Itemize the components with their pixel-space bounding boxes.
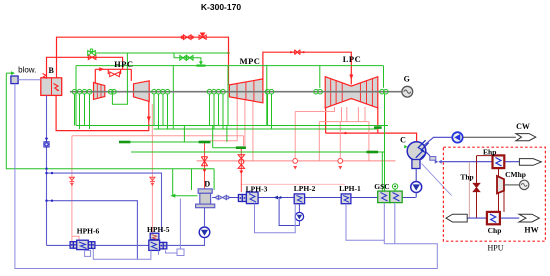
svg-text:LPH-3: LPH-3: [246, 184, 268, 193]
heater LPH-2: [294, 194, 304, 204]
svg-text:HPH-6: HPH-6: [77, 226, 100, 235]
svg-text:HPU: HPU: [487, 244, 503, 253]
wire main green line left side to blow: [6, 73, 214, 196]
heater drains cascade HPH6 to HPH5: [93, 249, 151, 259]
wire CMhp to Chp (maroon): [499, 191, 505, 212]
wire CW discharge: [463, 136, 516, 138]
arrow LPC inlet: [349, 75, 353, 80]
wire seal steam header (green): [76, 66, 384, 129]
wire D base to feed pump: [204, 207, 206, 227]
wire hot reheat (red): [56, 37, 228, 130]
turbine HPC section2: [134, 81, 150, 102]
deaerator D: [198, 189, 212, 193]
heater HPH-6: [70, 240, 95, 249]
generator of CMhp: [520, 180, 529, 189]
CW outfall arrow: [516, 134, 536, 141]
arrow condensate flow left: [274, 196, 279, 200]
feed valve gadget: [45, 138, 49, 141]
valve on condensate at D: [216, 195, 229, 199]
gland seal group1 HPC middle with loop: [109, 53, 128, 104]
wire main condensate line (blue): [212, 197, 416, 199]
wire drain to deaerator: [204, 142, 206, 189]
svg-text:blow.: blow.: [18, 66, 36, 75]
wire feedwater main through HPH (blue): [47, 238, 205, 245]
arrow seal steam to D line: [170, 194, 175, 198]
wire hotwell to condensate pump: [415, 169, 417, 182]
gland seals group4 after MPC: [265, 89, 274, 129]
svg-text:HPC: HPC: [114, 59, 133, 69]
reducer symbol on LPH-3 drain: [238, 155, 244, 169]
svg-text:HW: HW: [524, 226, 538, 235]
wire LPC drains pink: [295, 107, 369, 161]
pump LPH-2 drain: [298, 204, 300, 213]
wire LPH-3 drain to LPH-2: [255, 204, 296, 233]
wire LPH drain subheader (pink): [241, 183, 345, 185]
svg-text:CW: CW: [516, 122, 530, 131]
wire condenser makeup diagonal: [422, 164, 452, 196]
gland seals group2 after HPC: [152, 89, 170, 129]
heat exchanger Chp: [487, 212, 500, 224]
wire feedwater riser to boiler (blue): [46, 95, 48, 245]
node LPC exhaust junction: [344, 132, 346, 134]
wire Ehp to CMhp (maroon): [498, 168, 500, 176]
wire HP spray line (blue): [47, 173, 162, 232]
valve reheat 1: [181, 35, 193, 40]
arrow into blow tank: [11, 71, 15, 75]
HPU dashed boundary: [443, 147, 545, 241]
svg-text:K-300-170: K-300-170: [201, 2, 241, 12]
arrow HPC exhaust down: [147, 117, 151, 122]
arrow into condenser (green): [404, 145, 408, 148]
wire LPH-1 drain: [346, 204, 384, 241]
orifice marks (green thick): [119, 141, 130, 144]
wire HP bypass line (blue): [47, 201, 138, 260]
wire network water line through Chp (blue): [467, 217, 519, 219]
wire makeup water long loop (blue): [15, 84, 437, 269]
wire seal collector upper (green): [76, 126, 388, 130]
wire blow tank to boiler (blue): [18, 79, 41, 81]
wire gland steam line (green) B to MPC: [95, 52, 229, 54]
svg-text:Thp: Thp: [460, 173, 473, 182]
svg-text:LPH-2: LPH-2: [294, 184, 316, 193]
svg-text:Ehp: Ehp: [483, 148, 496, 157]
valve green at boiler: [88, 49, 96, 56]
svg-text:G: G: [404, 75, 410, 84]
turbine LPC double flow: [325, 77, 378, 108]
gland seals group6 after LPC: [380, 89, 388, 152]
svg-text:C: C: [400, 136, 406, 145]
boiler B: [41, 78, 62, 96]
boiler burner flame mark: [43, 74, 48, 79]
blow-down tank: [11, 76, 18, 84]
wire extraction header pink HPH-6/HPH-5: [72, 104, 244, 242]
svg-text:GSC: GSC: [374, 182, 389, 191]
wire heater drain header (red): [197, 160, 396, 162]
gland seals group0 before HPC: [72, 89, 92, 129]
drain trap HPH-5: [150, 177, 155, 181]
wire condenser to Ehp (blue): [426, 152, 520, 162]
pump feed (below D): [199, 227, 210, 238]
GSC vent valve (green circle): [392, 184, 397, 189]
svg-text:HPH-5: HPH-5: [147, 225, 170, 234]
gland seals group5 before LPC: [314, 89, 323, 94]
heater GSC (gland steam condenser): [378, 191, 390, 203]
turbine CMhp: [497, 176, 504, 193]
wire circulating water to CW pump: [424, 137, 452, 145]
wire drain to LPH-3: [240, 148, 242, 192]
wire gland bypass with valves (green): [174, 53, 201, 63]
svg-text:D: D: [204, 180, 210, 189]
turbine HPC section1: [94, 83, 105, 100]
shaft CMhp to generator: [504, 184, 520, 186]
crossover diaphragm symbol: [295, 50, 300, 55]
orifice thick mark LPC: [374, 126, 382, 129]
vent symbol to seal header: [199, 61, 203, 65]
pump circulating water: [452, 132, 462, 142]
node reheat/green crossing: [227, 52, 229, 54]
svg-text:CMhp: CMhp: [505, 170, 526, 179]
valve Thp: [473, 183, 480, 191]
wire GSC drains: [384, 203, 395, 244]
valve on main steam line at boiler: [88, 55, 96, 60]
condenser C: [407, 142, 426, 161]
svg-text:MPC: MPC: [240, 56, 261, 66]
wire main steam B to HPC (red): [47, 57, 132, 82]
node feed line taps: [45, 172, 47, 174]
heat exchanger Ehp: [493, 155, 505, 168]
pump condensate: [411, 182, 422, 193]
heater LPH-3: [238, 192, 258, 204]
generator G: [402, 86, 413, 97]
heater LPH-1: [341, 194, 351, 204]
wire MPC drains pink: [211, 99, 253, 161]
HW supply arrow (right): [519, 214, 539, 222]
wire crossover MPC to LPC (red): [263, 52, 351, 84]
svg-text:B: B: [49, 66, 55, 75]
reducer symbol on D drain: [201, 157, 207, 166]
gland seals group3 before MPC: [207, 89, 225, 129]
svg-text:Chp: Chp: [488, 226, 502, 235]
turbine MPC: [229, 79, 263, 103]
wire Thp branch (maroon): [477, 156, 493, 219]
svg-text:LPC: LPC: [343, 54, 362, 64]
valve at condenser outlet: [430, 157, 436, 161]
condenser hotwell: [412, 160, 420, 169]
network water return arrow (left): [446, 214, 467, 222]
wire Ehp outlet arrow: [519, 159, 541, 166]
orifice on LPH-2 drain: [293, 159, 298, 164]
wire seal collector mid (green): [119, 126, 385, 192]
shaft: [70, 91, 402, 93]
valve reheat 2 (safety): [199, 33, 206, 39]
valve on HPC header: [110, 72, 120, 77]
drain trap HPH-6: [69, 177, 74, 181]
wire LPC exhaust to condenser (red): [326, 108, 417, 142]
flow arrow on HPC header: [99, 67, 104, 71]
svg-text:LPH-1: LPH-1: [339, 184, 361, 193]
orifice on LPH-1 drain: [338, 159, 343, 164]
heater HPH-5: [149, 233, 167, 250]
